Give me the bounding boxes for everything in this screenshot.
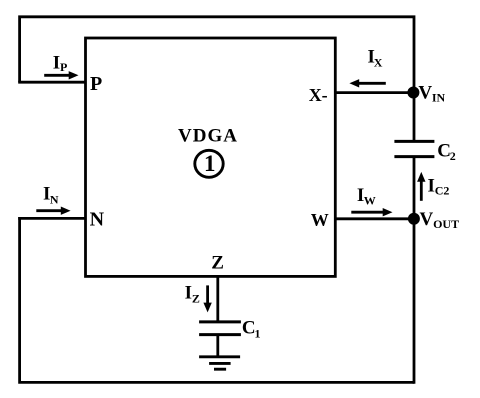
svg-text:X-: X-	[309, 85, 328, 105]
ground	[199, 355, 240, 358]
op-amp U1 VDGA block body	[86, 38, 336, 276]
svg-text:I: I	[185, 283, 192, 304]
capacitor C1	[199, 320, 241, 323]
current arrow IW	[351, 211, 384, 214]
current arrow IN	[36, 209, 63, 212]
svg-text:V: V	[420, 209, 434, 230]
wire X- to node VIN	[335, 91, 414, 94]
svg-text:Z: Z	[211, 253, 224, 274]
node VIN	[407, 87, 419, 99]
svg-text:P: P	[60, 60, 67, 74]
current arrow IC2	[420, 179, 423, 201]
svg-text:OUT: OUT	[433, 217, 459, 231]
capacitor C2	[394, 140, 434, 143]
node VOUT	[408, 213, 420, 225]
wire top feedback loop P node to VIN	[20, 17, 414, 92]
svg-text:C2: C2	[435, 184, 450, 198]
svg-text:IN: IN	[432, 90, 446, 104]
wire VIN to capacitor C2	[413, 92, 416, 141]
svg-text:W: W	[364, 193, 376, 207]
designator circled 1	[195, 150, 223, 177]
wire Z down to C1	[216, 276, 219, 322]
wire W to node VOUT	[335, 217, 414, 220]
svg-text:2: 2	[450, 149, 456, 163]
svg-text:1: 1	[204, 151, 216, 176]
svg-text:V: V	[418, 82, 432, 103]
svg-text:1: 1	[255, 327, 261, 341]
wire into pin P	[18, 81, 85, 84]
wire bottom feedback loop N node to VOUT	[20, 217, 414, 382]
svg-text:P: P	[90, 73, 102, 95]
current arrow IZ	[206, 285, 209, 305]
wire into pin N	[18, 217, 85, 220]
wire C1 to ground	[216, 335, 219, 357]
current arrow IP	[44, 74, 70, 77]
svg-text:N: N	[90, 208, 105, 230]
svg-text:Z: Z	[192, 291, 200, 305]
svg-text:VDGA: VDGA	[178, 125, 238, 146]
wire C2 through VOUT to bottom	[413, 157, 416, 384]
svg-text:N: N	[50, 192, 59, 206]
svg-text:W: W	[311, 210, 329, 230]
current arrow IX	[358, 82, 386, 85]
svg-text:X: X	[374, 55, 383, 69]
